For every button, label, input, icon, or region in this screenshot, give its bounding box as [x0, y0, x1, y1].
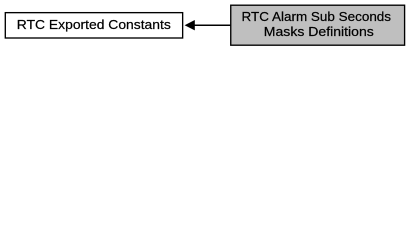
node: RTC Alarm Sub Seconds Masks Definitions (current, gray box) — [231, 5, 405, 45]
svg-text:RTC Alarm Sub Seconds: RTC Alarm Sub Seconds — [242, 9, 392, 24]
svg-text:RTC Exported Constants: RTC Exported Constants — [17, 17, 172, 32]
edge from right node to left node — [185, 20, 231, 30]
svg-text:Masks Definitions: Masks Definitions — [264, 24, 375, 39]
node: RTC Exported Constants (white box) — [5, 13, 182, 38]
wire — [195, 24, 231, 26]
arrowhead — [185, 20, 195, 30]
